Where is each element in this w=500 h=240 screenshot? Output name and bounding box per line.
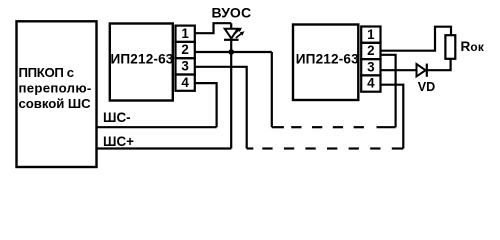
U2 terminal 2 xyxy=(361,43,380,59)
U1 terminal 3 xyxy=(176,58,195,74)
node junction dot xyxy=(228,49,234,55)
U1 terminal 1 xyxy=(176,26,195,42)
svg-text:совкой ШС: совкой ШС xyxy=(19,96,92,111)
wire resistor bottom to diode cathode xyxy=(427,59,451,70)
svg-text:переполю-: переполю- xyxy=(19,81,92,96)
svg-text:3: 3 xyxy=(181,59,188,74)
LED VUOS xyxy=(224,28,245,40)
svg-text:2: 2 xyxy=(367,43,374,58)
ShS+ wire xyxy=(97,147,232,149)
svg-text:1: 1 xyxy=(367,27,375,42)
svg-text:ШС-: ШС- xyxy=(103,110,131,125)
U1 terminal 2 xyxy=(176,42,195,58)
wire U1 pin1 to LED anode xyxy=(195,23,231,33)
ShS- wire xyxy=(97,126,217,128)
detector U1 IP212-63 body xyxy=(110,24,174,101)
U1 terminal 4 xyxy=(176,75,195,91)
U2 terminal 3 xyxy=(361,59,380,75)
dashed loop continuation lower xyxy=(247,147,404,149)
detector U2 IP212-63 body xyxy=(293,25,359,101)
svg-text:ВУОС: ВУОС xyxy=(212,5,252,21)
svg-text:ИП212-63: ИП212-63 xyxy=(296,51,359,66)
svg-text:4: 4 xyxy=(181,75,189,90)
wire U2 pin2 to dashed upper xyxy=(381,55,396,127)
diode VD xyxy=(417,64,427,77)
svg-text:ИП212-63: ИП212-63 xyxy=(110,51,173,66)
wire LED cathode lead xyxy=(230,40,232,52)
wire U2 pin4 to dashed lower xyxy=(381,85,404,149)
wire LED anode lead xyxy=(230,23,232,29)
svg-text:2: 2 xyxy=(181,42,188,57)
svg-text:ППКОП с: ППКОП с xyxy=(19,65,74,80)
resistor Rok xyxy=(445,35,455,59)
wire junction to ShS+ xyxy=(230,52,232,149)
U2 terminal 1 xyxy=(361,27,380,43)
dashed loop continuation upper xyxy=(272,126,396,128)
wire U2 pin2 to resistor top xyxy=(381,27,452,51)
U2 terminal 4 xyxy=(361,75,380,91)
wire pin2 drop to dashed ShS+ continuation xyxy=(271,52,273,127)
svg-text:1: 1 xyxy=(181,26,189,41)
wire U2 pin3 to diode anode xyxy=(381,69,417,71)
wire U1 pin4 to ShS- xyxy=(195,83,217,127)
svg-text:ШС+: ШС+ xyxy=(103,134,134,149)
svg-text:Rок: Rок xyxy=(461,39,485,54)
svg-text:VD: VD xyxy=(418,80,436,94)
PPKOP control panel box xyxy=(17,21,97,167)
svg-text:4: 4 xyxy=(367,76,375,91)
wire U1 pin2 across xyxy=(195,51,272,53)
svg-text:3: 3 xyxy=(367,59,374,74)
wire U1 pin3 across xyxy=(195,67,247,149)
